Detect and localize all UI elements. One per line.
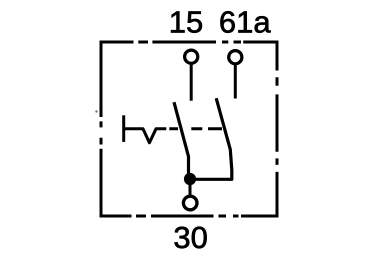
svg-text:15: 15 — [169, 5, 203, 40]
switch blade S1 (contact 15) — [174, 102, 189, 178]
wire stub from terminal 15 — [190, 65, 193, 101]
scan speck — [95, 110, 97, 112]
terminal circle 15 — [185, 50, 198, 63]
terminal circle 30 — [183, 196, 197, 210]
enclosure dashed border right side — [276, 41, 279, 218]
mechanical linkage dashed line with detent V — [125, 129, 166, 143]
switch blade S2 (contact 61a) with wire to junction — [190, 98, 232, 179]
junction node — [184, 173, 196, 185]
svg-text:61a: 61a — [219, 5, 271, 40]
enclosure dashed border left side — [100, 41, 103, 218]
svg-text:30: 30 — [173, 220, 207, 255]
wire stub from terminal 61a — [234, 65, 237, 99]
terminal circle 61a — [229, 51, 242, 64]
wire junction to terminal 30 — [189, 179, 192, 196]
enclosure dashed border bottom side — [100, 215, 279, 218]
actuator bar — [122, 115, 125, 142]
mechanical linkage dashes — [169, 127, 222, 130]
enclosure dashed border top side — [100, 41, 279, 44]
